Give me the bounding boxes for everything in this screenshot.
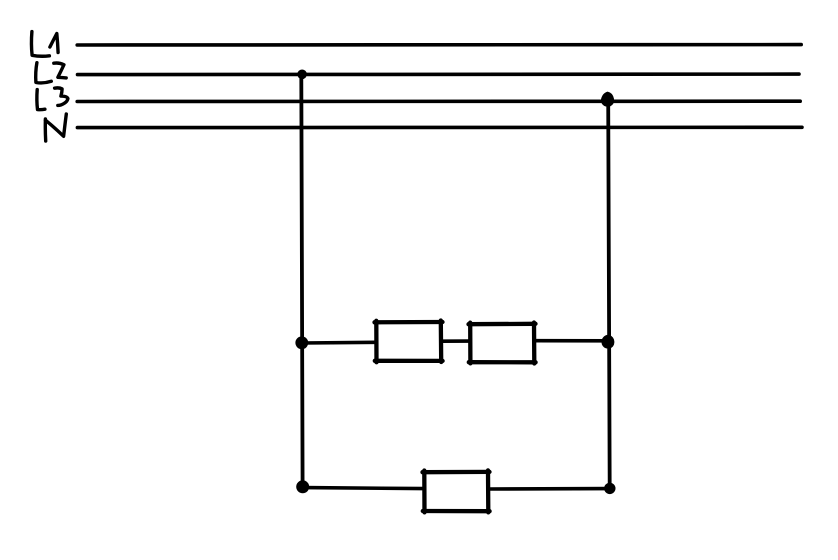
wire N bus line — [77, 126, 802, 130]
wire bottom branch left segment — [303, 488, 424, 489]
wire between R1 and R2 — [441, 339, 470, 343]
label L1 — [31, 32, 58, 57]
label L3 — [37, 88, 68, 110]
node junction bottom-left — [296, 480, 309, 493]
wire top branch right segment — [534, 339, 608, 343]
resistor R1 — [375, 321, 443, 363]
node junction bottom-right — [604, 483, 615, 494]
wire top branch left segment — [302, 340, 376, 344]
wire L2 bus line — [78, 72, 800, 76]
wire L3 bus line — [77, 99, 800, 103]
resistor R2 — [469, 323, 536, 364]
node junction on L3 (top-right) — [601, 92, 614, 107]
wire left vertical drop from L2 — [301, 74, 302, 486]
label L2 — [36, 63, 67, 83]
label N — [45, 114, 66, 141]
wire right vertical drop from L3 — [608, 100, 610, 488]
resistor R3 — [423, 470, 490, 512]
wire bottom branch right segment — [488, 487, 610, 491]
node junction mid-right — [601, 335, 614, 349]
wire L1 bus line — [77, 43, 801, 47]
node junction on L2 (top-left) — [297, 70, 307, 80]
node junction mid-left — [295, 336, 308, 349]
